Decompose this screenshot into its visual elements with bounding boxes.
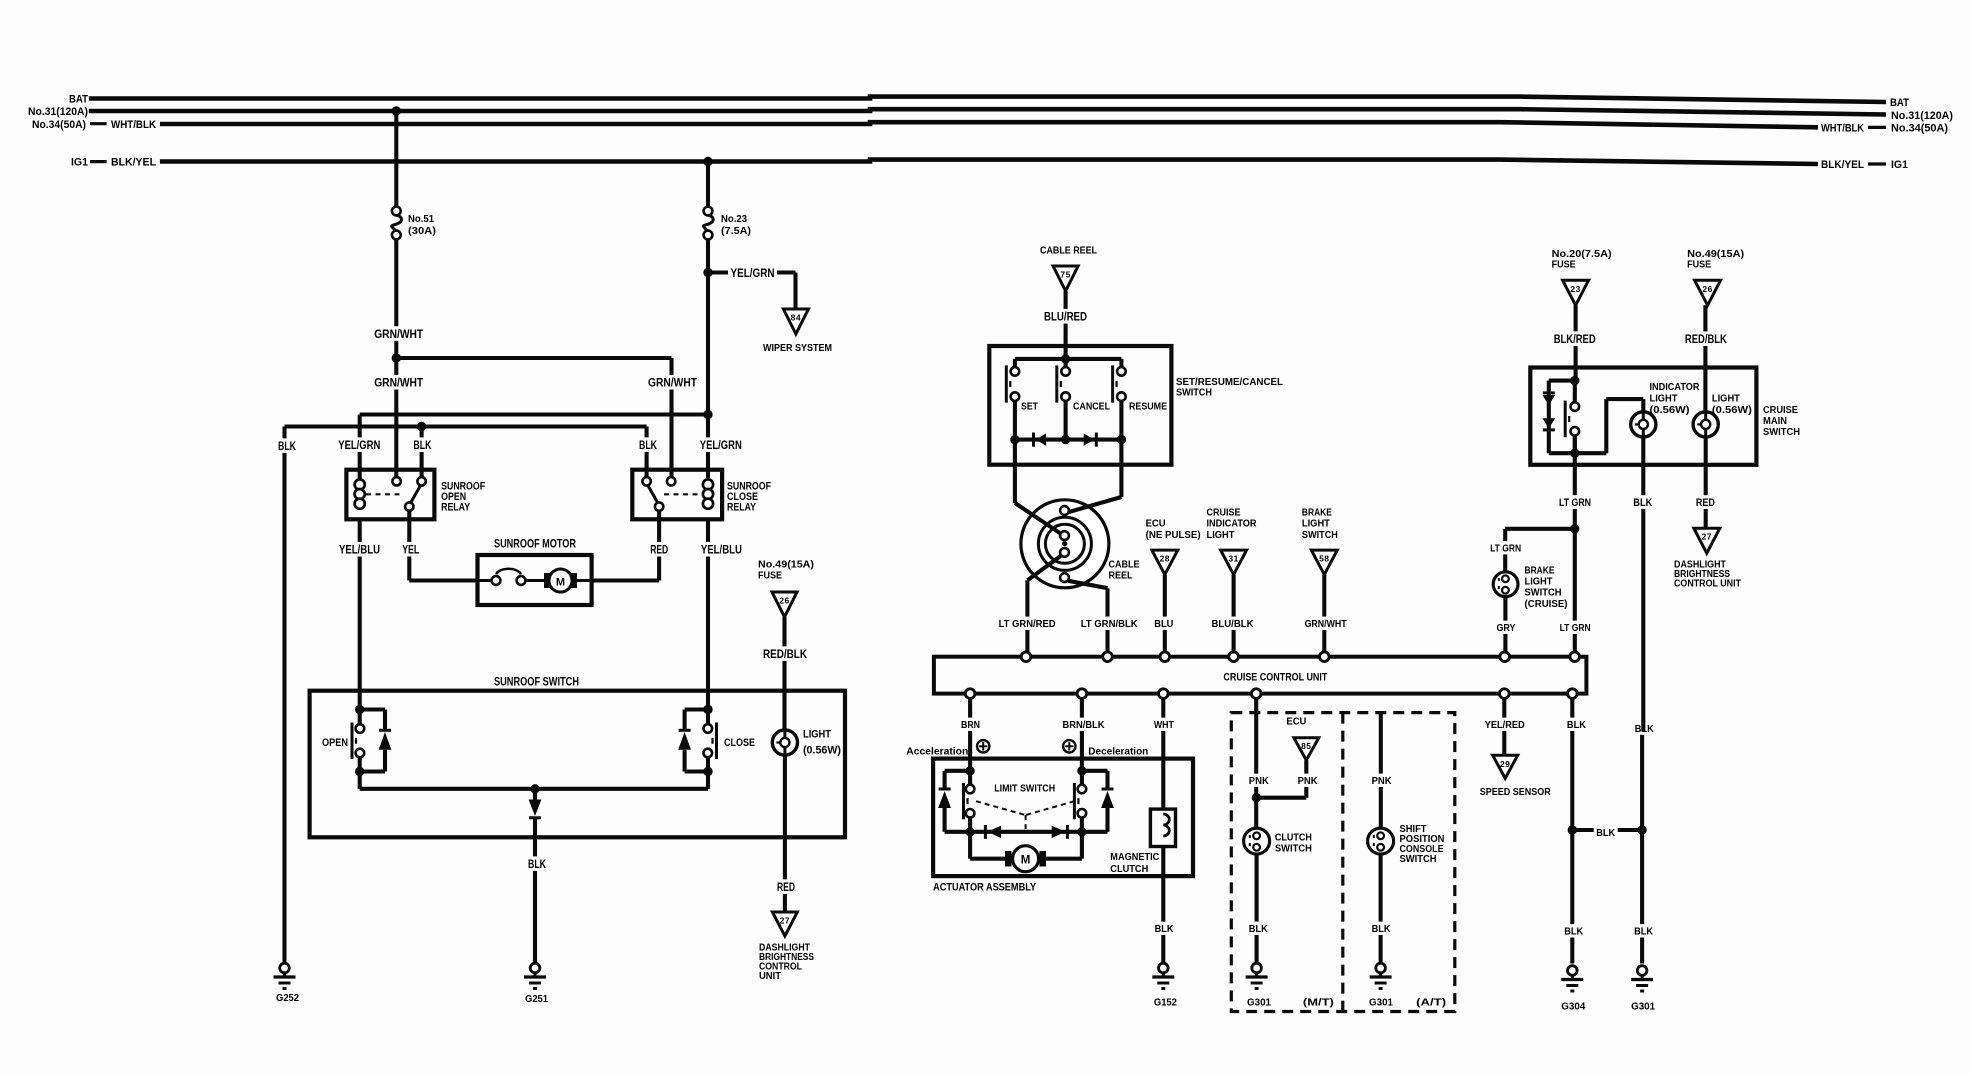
node BLK join xyxy=(1568,825,1577,834)
connector 27 dashlight xyxy=(772,912,797,936)
switch CANCEL xyxy=(1064,359,1068,367)
unit top connectors xyxy=(1021,652,1031,662)
svg-text:BRN: BRN xyxy=(961,719,980,731)
svg-text:85: 85 xyxy=(1301,741,1311,751)
svg-text:WHT/BLK: WHT/BLK xyxy=(1821,122,1864,134)
svg-text:YEL/GRN: YEL/GRN xyxy=(700,438,742,452)
wire BLK to G152 xyxy=(1161,847,1165,964)
svg-text:ECU: ECU xyxy=(1286,716,1306,728)
wire GRY xyxy=(1503,597,1507,653)
ground G301 right xyxy=(1637,966,1647,976)
wire BLK bus of relays xyxy=(285,424,647,428)
svg-text:CANCEL: CANCEL xyxy=(1073,401,1110,413)
wire PNK shift xyxy=(1379,713,1383,829)
svg-text:29: 29 xyxy=(1500,759,1510,769)
connector 27 dashlight right xyxy=(1694,528,1720,553)
node LT GRN branch xyxy=(1570,524,1579,533)
svg-text:(0.56W): (0.56W) xyxy=(803,745,841,757)
svg-text:GRN/WHT: GRN/WHT xyxy=(374,327,424,341)
svg-text:Acceleration: Acceleration xyxy=(906,746,968,758)
svg-text:INDICATOR: INDICATOR xyxy=(1650,381,1700,393)
svg-text:YEL/GRN: YEL/GRN xyxy=(338,438,380,452)
limit switch left xyxy=(965,766,974,775)
svg-text:No.34(50A): No.34(50A) xyxy=(32,119,86,131)
svg-text:G301: G301 xyxy=(1369,997,1393,1009)
svg-text:G251: G251 xyxy=(525,993,548,1005)
svg-text:YEL/BLU: YEL/BLU xyxy=(701,543,742,557)
node common xyxy=(530,784,539,793)
svg-text:YEL/GRN: YEL/GRN xyxy=(731,266,775,280)
main switch diodes xyxy=(1570,376,1579,385)
wire wiper drop xyxy=(793,273,797,310)
wire BLK from indicator light xyxy=(1640,732,1644,964)
svg-text:CRUISE CONTROL UNIT: CRUISE CONTROL UNIT xyxy=(1223,672,1327,684)
svg-text:RED: RED xyxy=(650,543,668,557)
svg-text:(CRUISE): (CRUISE) xyxy=(1525,598,1568,610)
wire GRN/WHT horizontal to close relay xyxy=(396,356,671,360)
actuator motor xyxy=(968,832,972,859)
svg-text:LT GRN: LT GRN xyxy=(1559,497,1591,509)
ground G252 xyxy=(280,963,290,973)
svg-text:YEL/RED: YEL/RED xyxy=(1485,719,1525,731)
node YEL/GRN to open relay coil xyxy=(703,410,712,419)
svg-text:G301: G301 xyxy=(1631,1000,1655,1012)
svg-text:(0.56W): (0.56W) xyxy=(1712,404,1752,416)
unit bottom connectors xyxy=(965,689,975,699)
box SET/RESUME/CANCEL SWITCH xyxy=(989,346,1171,465)
switch OPEN button xyxy=(355,705,364,714)
svg-text:BRN/BLK: BRN/BLK xyxy=(1063,719,1105,731)
shift position console switch xyxy=(1368,828,1394,854)
wire top bar xyxy=(1015,357,1122,361)
wire switch common bus xyxy=(358,772,362,789)
svg-text:75: 75 xyxy=(1060,270,1070,280)
wire YEL/BLU right xyxy=(706,519,710,705)
wire PNK from ECU xyxy=(1304,760,1308,798)
wire to reel right xyxy=(1119,440,1123,497)
svg-text:RED: RED xyxy=(1696,497,1715,509)
svg-text:G304: G304 xyxy=(1561,1000,1585,1012)
diode right xyxy=(1084,433,1095,445)
svg-text:(30A): (30A) xyxy=(408,225,436,237)
limit switch right xyxy=(1077,766,1086,775)
svg-text:RED: RED xyxy=(777,880,795,894)
power bus BAT xyxy=(89,97,1886,102)
switch SET xyxy=(1013,359,1017,367)
svg-text:BLK: BLK xyxy=(1567,719,1586,731)
cable reel xyxy=(1021,500,1109,588)
svg-text:M: M xyxy=(1021,855,1031,867)
svg-text:LIGHT: LIGHT xyxy=(1712,393,1741,405)
connector 29 speed sensor xyxy=(1493,755,1518,778)
svg-text:ECU: ECU xyxy=(1146,518,1166,530)
svg-text:WHT: WHT xyxy=(1154,719,1174,731)
svg-text:RELAY: RELAY xyxy=(441,502,471,514)
wire RED to motor xyxy=(657,511,661,581)
svg-text:SWITCH: SWITCH xyxy=(1763,426,1800,438)
light LIGHT (0.56W) main xyxy=(1693,412,1718,437)
diode to ground xyxy=(533,789,537,800)
svg-text:BLU/RED: BLU/RED xyxy=(1044,310,1087,324)
svg-text:GRN/WHT: GRN/WHT xyxy=(374,376,424,390)
wire BLK from indicator xyxy=(1641,437,1645,732)
svg-text:GRY: GRY xyxy=(1497,622,1516,634)
svg-text:(A/T): (A/T) xyxy=(1416,997,1446,1009)
wire PNK clutch xyxy=(1254,698,1258,828)
wire YEL/BLU left xyxy=(358,519,362,705)
box ACTUATOR ASSEMBLY xyxy=(933,759,1193,877)
ground G301 M/T xyxy=(1252,963,1262,973)
svg-text:BLK: BLK xyxy=(1155,923,1174,935)
svg-text:58: 58 xyxy=(1319,554,1329,564)
wire BLK clutch to G301 xyxy=(1255,854,1259,963)
light LIGHT (0.56W) sunroof xyxy=(772,730,797,755)
connector 84 wiper system xyxy=(783,309,808,334)
svg-text:23: 23 xyxy=(1570,284,1580,294)
light INDICATOR LIGHT (0.56W) xyxy=(1631,412,1656,437)
svg-text:CONTROL UNIT: CONTROL UNIT xyxy=(1674,578,1741,590)
svg-text:UNIT: UNIT xyxy=(759,970,782,982)
wire YEL/GRN horizontal to open relay xyxy=(360,412,708,416)
svg-text:SWITCH: SWITCH xyxy=(1400,853,1437,865)
svg-text:BAT: BAT xyxy=(1890,97,1909,109)
svg-text:No.31(120A): No.31(120A) xyxy=(1891,110,1953,122)
wire to indicator light xyxy=(1575,451,1607,455)
svg-text:RESUME: RESUME xyxy=(1129,401,1167,413)
dashed box clutch/shift xyxy=(1231,713,1455,1012)
svg-text:LIGHT: LIGHT xyxy=(803,729,831,741)
wire to reel left xyxy=(1013,440,1017,503)
wire GRN/WHT vertical xyxy=(394,239,398,481)
svg-text:27: 27 xyxy=(780,916,790,926)
svg-text:REEL: REEL xyxy=(1109,570,1133,582)
label Deceleration xyxy=(1063,740,1075,752)
svg-text:CABLE REEL: CABLE REEL xyxy=(1040,245,1097,257)
svg-text:SWITCH: SWITCH xyxy=(1176,387,1212,399)
svg-text:WHT/BLK: WHT/BLK xyxy=(111,119,156,131)
svg-text:YEL: YEL xyxy=(402,543,419,557)
svg-text:G152: G152 xyxy=(1154,997,1177,1009)
svg-text:RED/BLK: RED/BLK xyxy=(763,647,807,661)
svg-text:ACTUATOR ASSEMBLY: ACTUATOR ASSEMBLY xyxy=(933,882,1037,894)
svg-text:SUNROOF SWITCH: SUNROOF SWITCH xyxy=(494,675,579,689)
wire WHT xyxy=(1161,698,1165,809)
svg-text:BAT: BAT xyxy=(69,93,88,105)
svg-text:IG1: IG1 xyxy=(71,156,88,168)
svg-text:RELAY: RELAY xyxy=(727,502,757,514)
svg-text:26: 26 xyxy=(779,596,789,606)
ground G304 xyxy=(1568,966,1578,976)
svg-text:PNK: PNK xyxy=(1372,775,1392,787)
power bus No.34(50A) WHT/BLK xyxy=(160,122,1818,127)
svg-text:BLK: BLK xyxy=(1633,497,1652,509)
wire RED/BLK xyxy=(782,617,786,730)
svg-text:SWITCH: SWITCH xyxy=(1525,587,1562,599)
wire reel diag right xyxy=(1069,497,1122,512)
brake light switch (cruise) xyxy=(1493,572,1518,597)
svg-text:27: 27 xyxy=(1702,532,1712,542)
svg-text:28: 28 xyxy=(1160,554,1170,564)
svg-text:(0.56W): (0.56W) xyxy=(1650,404,1690,416)
wire RED to dashlight right xyxy=(1704,437,1708,528)
node YEL/GRN branch to wiper xyxy=(703,268,712,277)
svg-text:LIGHT: LIGHT xyxy=(1650,393,1679,405)
ground G152 xyxy=(1159,963,1169,973)
svg-text:LT GRN: LT GRN xyxy=(1490,543,1521,555)
wire RED/BLK right xyxy=(1703,305,1707,412)
actuator diode bus xyxy=(945,830,1108,834)
svg-text:BLK: BLK xyxy=(1596,827,1615,839)
svg-text:LIGHT: LIGHT xyxy=(1207,529,1236,541)
svg-text:SWITCH: SWITCH xyxy=(1275,843,1312,855)
fuse No.23(7.5A) xyxy=(704,207,713,216)
svg-text:Deceleration: Deceleration xyxy=(1088,746,1148,758)
fuse No.51(30A) xyxy=(392,207,401,216)
svg-text:FUSE: FUSE xyxy=(758,570,782,582)
svg-text:BLK: BLK xyxy=(1564,926,1583,938)
magnetic clutch xyxy=(1150,809,1175,846)
box CRUISE CONTROL UNIT xyxy=(934,657,1587,694)
svg-text:BLK/YEL: BLK/YEL xyxy=(111,156,156,168)
svg-text:FUSE: FUSE xyxy=(1552,259,1576,271)
wire BLK right xyxy=(1570,698,1574,963)
svg-text:RED/BLK: RED/BLK xyxy=(1685,332,1727,346)
wire reel diag left xyxy=(1015,503,1060,533)
svg-text:WIPER SYSTEM: WIPER SYSTEM xyxy=(763,342,832,354)
svg-text:MAGNETIC: MAGNETIC xyxy=(1110,851,1159,863)
svg-text:SPEED SENSOR: SPEED SENSOR xyxy=(1480,786,1551,798)
svg-text:SET: SET xyxy=(1021,401,1038,413)
svg-text:BLU: BLU xyxy=(1154,618,1173,630)
svg-text:YEL/BLU: YEL/BLU xyxy=(339,543,380,557)
wire BRN/BLK xyxy=(1080,698,1084,771)
svg-text:PNK: PNK xyxy=(1298,775,1318,787)
node BLK open relay xyxy=(417,422,426,431)
svg-text:CLUTCH: CLUTCH xyxy=(1110,863,1148,875)
svg-text:31: 31 xyxy=(1228,554,1238,564)
svg-text:G301: G301 xyxy=(1247,997,1271,1009)
wire BLK close relay xyxy=(645,427,649,482)
svg-text:BLK: BLK xyxy=(413,438,431,452)
relay SUNROOF OPEN RELAY xyxy=(346,470,434,520)
svg-text:26: 26 xyxy=(1702,284,1712,294)
power bus No.31(120A) xyxy=(89,109,1886,114)
clutch switch xyxy=(1244,828,1270,854)
svg-text:SUNROOF MOTOR: SUNROOF MOTOR xyxy=(494,537,576,551)
wire BRN xyxy=(968,698,972,771)
wire reel to LT GRN/RED xyxy=(1027,556,1060,581)
svg-text:BLK/RED: BLK/RED xyxy=(1554,332,1596,346)
svg-text:(7.5A): (7.5A) xyxy=(721,225,751,237)
svg-text:BLK: BLK xyxy=(1372,923,1391,935)
wire LT GRN main xyxy=(1573,437,1577,652)
svg-text:No.51: No.51 xyxy=(408,213,434,225)
svg-text:GRN/WHT: GRN/WHT xyxy=(648,376,698,390)
svg-text:(NE PULSE): (NE PULSE) xyxy=(1146,529,1201,541)
switch RESUME xyxy=(1119,359,1123,367)
wire YEL/GRN vertical xyxy=(706,239,710,478)
diode left xyxy=(1032,433,1035,447)
wire BLK shift to G301 xyxy=(1379,854,1383,963)
svg-text:BLK: BLK xyxy=(1249,923,1268,935)
wire YEL to motor xyxy=(407,511,411,581)
svg-text:G252: G252 xyxy=(276,992,299,1004)
wire fuse51 drop xyxy=(392,106,401,115)
wire BLK/RED xyxy=(1574,305,1578,380)
svg-text:No.31(120A): No.31(120A) xyxy=(28,106,88,118)
wire YEL/RED speed sensor xyxy=(1502,698,1506,755)
svg-text:BLU/BLK: BLU/BLK xyxy=(1212,618,1254,630)
svg-text:BLK: BLK xyxy=(1634,926,1653,938)
svg-text:No.23: No.23 xyxy=(721,213,747,225)
svg-text:FUSE: FUSE xyxy=(1687,259,1711,271)
svg-text:84: 84 xyxy=(791,313,801,323)
svg-text:BLK: BLK xyxy=(278,439,296,453)
limit switch linkage dashed xyxy=(976,801,1026,815)
svg-text:LT GRN: LT GRN xyxy=(1560,622,1591,634)
svg-text:No.34(50A): No.34(50A) xyxy=(1891,123,1948,135)
ground G301 A/T xyxy=(1376,963,1386,973)
wire fuse23 drop xyxy=(703,157,712,166)
svg-text:LT GRN/BLK: LT GRN/BLK xyxy=(1081,618,1138,630)
svg-text:M: M xyxy=(556,576,565,588)
svg-text:CLOSE: CLOSE xyxy=(724,737,755,749)
svg-text:BLK/YEL: BLK/YEL xyxy=(1821,159,1864,171)
main switch button xyxy=(1573,381,1577,403)
svg-text:LIGHT: LIGHT xyxy=(1302,518,1331,530)
wire reel to LT GRN/BLK xyxy=(1068,581,1107,588)
power bus IG1 BLK/YEL xyxy=(160,160,1818,164)
relay SUNROOF CLOSE RELAY xyxy=(632,470,722,520)
diode bus xyxy=(1015,438,1122,442)
node GRN/WHT junction xyxy=(392,353,401,362)
ground G251 xyxy=(530,963,540,973)
svg-text:INDICATOR: INDICATOR xyxy=(1207,518,1257,530)
switch CLOSE button xyxy=(703,705,712,714)
svg-text:BLK: BLK xyxy=(639,438,657,452)
svg-text:(M/T): (M/T) xyxy=(1303,997,1334,1009)
box CRUISE MAIN SWITCH xyxy=(1530,368,1756,465)
svg-text:OPEN: OPEN xyxy=(322,737,348,749)
connector 85 ECU xyxy=(1294,738,1319,761)
wire RED to dashlight unit xyxy=(783,755,787,912)
svg-text:PNK: PNK xyxy=(1249,775,1269,787)
svg-text:LIMIT SWITCH: LIMIT SWITCH xyxy=(994,783,1055,795)
svg-text:BLK: BLK xyxy=(528,857,546,871)
svg-text:LT GRN/RED: LT GRN/RED xyxy=(999,618,1056,630)
svg-text:SWITCH: SWITCH xyxy=(1302,529,1338,541)
wire BLU/RED xyxy=(1064,291,1068,359)
svg-text:GRN/WHT: GRN/WHT xyxy=(1305,618,1347,630)
svg-text:IG1: IG1 xyxy=(1891,159,1908,171)
